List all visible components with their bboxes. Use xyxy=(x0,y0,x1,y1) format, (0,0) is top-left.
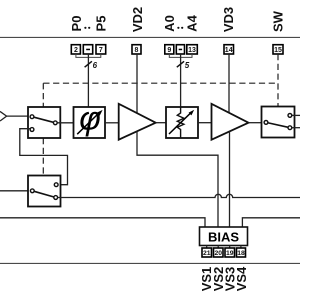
BIAS pin stub 18 xyxy=(240,246,242,249)
switch S2 arm xyxy=(32,191,55,198)
right ground rail xyxy=(242,218,300,227)
svg-text:P5: P5 xyxy=(93,16,108,32)
pin gap box A bus xyxy=(176,45,184,54)
dashed control drop to input switch xyxy=(42,83,44,107)
svg-text:A0: A0 xyxy=(162,15,177,32)
chip top boundary line xyxy=(0,36,300,38)
svg-text:BIAS: BIAS xyxy=(208,230,239,245)
pin 13 box xyxy=(187,45,198,55)
output switch throw bottom-right xyxy=(288,126,292,130)
chip bottom boundary line xyxy=(0,262,300,264)
attenuator variable arrow xyxy=(169,112,191,134)
phase shifter variable arrow xyxy=(77,113,99,135)
input wire xyxy=(7,115,30,117)
svg-text:13: 13 xyxy=(188,47,196,54)
VD2 wire xyxy=(136,54,138,113)
wire attenuator to amp2 xyxy=(198,122,212,124)
switch S1 arm xyxy=(32,117,55,123)
BIAS pin stub 19 xyxy=(229,246,231,249)
A bus wire to attenuator xyxy=(180,54,182,107)
SW control dashed wire vertical xyxy=(277,54,279,107)
switch S1 pole right xyxy=(53,121,57,125)
pin 2 box xyxy=(71,45,80,55)
A bus slash xyxy=(177,61,184,67)
switch S1 throw bottom-left xyxy=(30,128,34,132)
wire phase shifter to amp1 xyxy=(105,122,119,124)
BIAS pin stub 21 xyxy=(206,246,208,249)
pin 15 box xyxy=(273,45,283,55)
amplifier U1 xyxy=(119,104,156,140)
output switch box xyxy=(262,107,295,138)
attenuator resistor zigzag xyxy=(177,107,184,138)
svg-text:VD3: VD3 xyxy=(221,7,236,32)
switch S2 pole left xyxy=(30,189,34,193)
pin 9 box xyxy=(165,45,174,55)
BIAS pin stub 20 xyxy=(217,246,219,249)
P bus wire to phase shifter xyxy=(87,54,89,107)
svg-text:14: 14 xyxy=(225,47,233,54)
svg-text:8: 8 xyxy=(135,47,139,54)
svg-text:18: 18 xyxy=(237,250,245,257)
svg-text:VS4: VS4 xyxy=(234,266,249,291)
svg-text:5: 5 xyxy=(185,61,190,70)
svg-text:P0: P0 xyxy=(69,16,84,32)
output wire RF1 xyxy=(292,114,300,116)
svg-text:A4: A4 xyxy=(185,14,200,31)
bypass output wire with hops xyxy=(58,194,300,197)
pin 7 box xyxy=(96,45,106,55)
svg-text:20: 20 xyxy=(215,250,223,257)
switch S2 box xyxy=(28,176,61,207)
output switch arm xyxy=(266,122,290,127)
pin 18 box xyxy=(237,248,246,257)
svg-text:15: 15 xyxy=(274,47,282,54)
svg-text:6: 6 xyxy=(93,61,98,70)
phase shifter box xyxy=(74,107,106,138)
input arrowhead xyxy=(0,111,7,121)
wire S1 to phase shifter xyxy=(57,122,73,124)
pin 20 box xyxy=(214,248,224,257)
attenuator box xyxy=(166,107,198,138)
pin gap box P bus xyxy=(83,45,92,54)
bypass wire from S1 to S2 xyxy=(20,129,68,185)
pin 8 box xyxy=(132,45,141,55)
P bus slash xyxy=(85,61,92,67)
svg-text:2: 2 xyxy=(74,47,78,54)
VD3 wire xyxy=(228,54,230,113)
svg-text:9: 9 xyxy=(167,47,171,54)
svg-text:7: 7 xyxy=(99,47,103,54)
switch S2 throw bottom-right xyxy=(54,196,58,200)
svg-text:φ: φ xyxy=(79,99,101,136)
wire amp1 to attenuator xyxy=(156,122,166,124)
switch S1 box xyxy=(28,107,60,138)
switch S1 pole top-left xyxy=(30,115,34,119)
A bus bracket xyxy=(169,54,192,57)
pin 19 box xyxy=(225,248,235,257)
bypass input wire xyxy=(0,190,32,192)
output switch throw top-right xyxy=(288,114,292,118)
left ground rail xyxy=(0,218,205,227)
wire amp2 to output switch xyxy=(249,122,262,124)
pin 14 box xyxy=(224,45,234,55)
SW control dashed wire horizontal xyxy=(43,82,278,84)
amp2 bias wire xyxy=(229,131,231,227)
svg-text:VD2: VD2 xyxy=(130,7,145,32)
output switch pole left xyxy=(264,121,268,125)
BIAS block xyxy=(200,227,248,246)
switch S2 throw top-right xyxy=(54,183,58,187)
amp1 bias wire xyxy=(137,131,218,227)
svg-text:19: 19 xyxy=(226,250,234,257)
dots between P0 and P5 xyxy=(84,27,86,29)
svg-text:21: 21 xyxy=(203,250,211,257)
dots between A0 and A4 xyxy=(177,27,179,29)
amplifier U2 xyxy=(212,104,249,140)
output wire RF2 xyxy=(292,127,300,129)
dashed control between switches xyxy=(42,138,44,176)
pin 21 box xyxy=(202,248,212,257)
svg-text:SW: SW xyxy=(270,10,285,32)
P bus bracket xyxy=(76,54,101,57)
